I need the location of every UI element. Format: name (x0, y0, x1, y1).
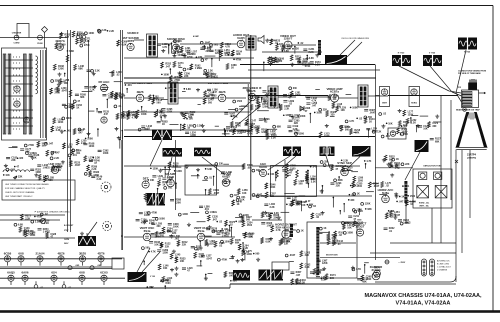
wire (169, 124, 178, 126)
capacitor C sync46 (296, 202, 300, 203)
resistor R vert18 (242, 221, 245, 227)
component vert39 (212, 230, 215, 233)
transformer T5 IF (358, 85, 368, 107)
junction (69, 158, 71, 160)
svg-text:10K: 10K (150, 179, 155, 182)
resistor R if20 (154, 111, 157, 117)
wire (164, 286, 166, 289)
svg-text:10K: 10K (189, 118, 194, 121)
yoke box (413, 169, 452, 208)
tube heater row2 6CU5 (100, 271, 108, 282)
junction (344, 222, 346, 224)
svg-text:22K: 22K (284, 243, 289, 246)
svg-text:21ATP4: 21ATP4 (467, 153, 477, 156)
svg-text:3BZ6: 3BZ6 (79, 251, 86, 255)
ground vert23 (170, 234, 174, 238)
svg-text:270K: 270K (174, 79, 180, 82)
wire (299, 195, 306, 197)
svg-text:2.2K: 2.2K (149, 222, 154, 225)
component hout16 (352, 268, 355, 271)
capacitor C if2b3 (102, 94, 106, 95)
component af1 (230, 194, 233, 197)
svg-text:1500: 1500 (237, 100, 243, 103)
resistor R lc31 (53, 64, 56, 70)
component sync8 (354, 210, 357, 213)
resistor R vb11 (224, 271, 227, 277)
svg-text:470K: 470K (187, 56, 193, 59)
svg-text:68K: 68K (25, 151, 30, 154)
tube V16 UHF OSC (48, 162, 62, 174)
wire (120, 30, 122, 140)
svg-text:12BY7: 12BY7 (284, 37, 293, 41)
resistor R snd3 (173, 61, 176, 67)
svg-text:22K: 22K (294, 122, 299, 125)
svg-text:270K: 270K (56, 167, 62, 170)
ground lm310 (30, 156, 34, 160)
resistor R hout15 (291, 279, 294, 285)
component vert52 (155, 217, 158, 220)
component vert57 (141, 247, 144, 250)
svg-text:1K: 1K (178, 65, 181, 68)
wire (171, 166, 181, 168)
svg-text:68K: 68K (80, 96, 85, 99)
heater term box (112, 258, 124, 269)
power frame right (455, 243, 457, 282)
resistor R vert19 (194, 252, 197, 258)
wire (122, 30, 124, 250)
CRT socket (462, 90, 479, 108)
resistor R sync53 (265, 192, 268, 198)
resistor R sync26 (285, 164, 288, 170)
junction (271, 212, 273, 214)
component if214 (233, 100, 236, 103)
svg-text:22K: 22K (206, 50, 211, 53)
component lm18 (6, 168, 9, 171)
ground sync11 (320, 189, 324, 193)
svg-text:100K: 100K (173, 225, 179, 228)
svg-text:120K: 120K (176, 170, 182, 173)
junction (314, 112, 316, 114)
svg-text:PIN SIDE OF TUBE BASE: PIN SIDE OF TUBE BASE (458, 72, 481, 75)
ground if240 (202, 129, 206, 133)
junction (157, 109, 159, 111)
capacitor C snd0 (157, 44, 161, 45)
waveform display WF2 vert video (458, 38, 477, 50)
wf16 leader (348, 157, 360, 169)
resistor R vert56 (214, 241, 217, 247)
svg-text:1500: 1500 (225, 240, 231, 243)
resistor R if215 (233, 129, 236, 135)
wire (164, 167, 166, 177)
svg-text:22K: 22K (336, 185, 341, 188)
svg-text:22K: 22K (295, 48, 300, 51)
tube heater row1 4DT6 (97, 251, 104, 262)
resistor R va25 (319, 132, 322, 138)
capacitor C vert46 (168, 224, 172, 225)
svg-text:4.7K: 4.7K (366, 160, 371, 163)
svg-text:.001: .001 (214, 44, 219, 47)
capacitor C lc37 (84, 87, 88, 88)
wire (343, 204, 345, 212)
svg-text:100K: 100K (103, 152, 109, 155)
wire (375, 168, 432, 243)
tube V25 HV RECT (354, 222, 367, 236)
wire (157, 110, 159, 115)
junction (147, 287, 149, 289)
resistor R vert213 (238, 244, 241, 250)
svg-text:10K: 10K (64, 82, 69, 85)
svg-text:120K: 120K (254, 96, 260, 99)
svg-text:560: 560 (208, 101, 213, 104)
resistor R lc17 (59, 79, 62, 85)
junction (251, 127, 253, 129)
wire (124, 140, 244, 210)
component sync13 (334, 179, 337, 182)
component sync25 (320, 161, 323, 164)
capacitor C vert210 (201, 256, 205, 257)
tuner switch wafer 1 (3, 54, 6, 134)
svg-text:4.7K: 4.7K (354, 132, 359, 135)
resistor R snd31 (232, 50, 235, 56)
wire (88, 110, 94, 112)
svg-text:— 250V: — 250V (398, 262, 406, 264)
svg-text:68K: 68K (78, 67, 83, 70)
component top1 (97, 29, 100, 32)
ground af5 (158, 169, 162, 173)
junction (359, 208, 361, 210)
wire (256, 96, 388, 98)
wire (364, 262, 369, 264)
uhf note box (2, 180, 75, 200)
resistor R if251 (136, 110, 139, 116)
svg-text:.0047: .0047 (213, 192, 220, 195)
wire (262, 45, 322, 52)
svg-text:6.8K: 6.8K (69, 50, 74, 53)
wire (175, 183, 177, 189)
capacitor C sync55 (264, 204, 268, 205)
wire (0, 258, 122, 260)
component vert6 (206, 211, 209, 214)
resistor R snd5 (190, 64, 193, 70)
junction (143, 260, 145, 262)
junction (275, 172, 277, 174)
svg-text:22K: 22K (11, 159, 16, 162)
ground crtdrv15 (416, 124, 420, 128)
resistor R lm34 (37, 141, 40, 147)
tube heater row1 4BZ6 (57, 251, 64, 262)
resistor R vo13 (290, 55, 293, 61)
svg-text:4BZ6: 4BZ6 (136, 90, 143, 94)
resistor R vo5 (268, 57, 271, 63)
svg-text:SOUND IF: SOUND IF (127, 32, 139, 35)
svg-text:1K: 1K (162, 183, 165, 186)
junction (106, 99, 108, 101)
resistor R hout10 (300, 263, 303, 269)
svg-text:1K: 1K (301, 230, 304, 233)
CRT base prongs (470, 79, 476, 83)
svg-text:B- BOOST: B- BOOST (64, 225, 74, 227)
resistor R va3 (250, 125, 253, 131)
resistor R hv213 (279, 239, 282, 245)
svg-text:4.5MC: 4.5MC (193, 35, 200, 38)
capacitor C snd26 (203, 73, 207, 74)
det leader lines (232, 100, 258, 126)
wire (134, 40, 237, 44)
wire (211, 59, 213, 67)
resistor R lc41 (72, 103, 75, 109)
svg-text:2.2K: 2.2K (90, 88, 95, 91)
ground vert51 (160, 243, 164, 247)
capacitor C vert14 (136, 219, 140, 220)
svg-text:3.3K: 3.3K (321, 278, 326, 281)
resistor R crtdrv13 (428, 122, 431, 128)
svg-text:120K: 120K (408, 113, 414, 116)
svg-text:10K: 10K (187, 68, 192, 71)
svg-text:100K: 100K (316, 111, 322, 114)
svg-text:6.8K: 6.8K (18, 223, 23, 226)
wire (235, 216, 243, 218)
svg-text:6CAT MODULE: 6CAT MODULE (345, 222, 359, 225)
capacitor C hvmod12 (348, 216, 352, 217)
capacitor C va33 (306, 103, 310, 104)
ground afc15 (382, 158, 386, 162)
svg-text:3.3K: 3.3K (338, 179, 343, 182)
svg-text:100K: 100K (352, 106, 358, 109)
svg-text:100K: 100K (89, 145, 95, 148)
ground hv29 (269, 237, 273, 241)
junction (400, 133, 402, 135)
tube V11 3RD VIDEO IF (243, 86, 262, 101)
resistor R sync15 (368, 182, 371, 188)
svg-text:100K: 100K (163, 73, 169, 76)
resistor R lm27 (21, 214, 24, 220)
capacitor C vert21 (167, 230, 171, 231)
CRT pin label 5 (462, 104, 472, 107)
resistor R vert24 (205, 239, 208, 245)
svg-text:330: 330 (331, 114, 336, 117)
wire (0, 220, 75, 238)
tube V30 4BQ7A (55, 39, 66, 50)
junction (147, 286, 149, 288)
resistor R crtdrv16 (403, 110, 406, 116)
component snd28 (173, 40, 176, 43)
tube V14 centering (411, 89, 417, 95)
wire (410, 118, 412, 124)
svg-text:6.8K: 6.8K (207, 168, 212, 171)
capacitor C if254 (157, 121, 161, 122)
waveform display WF11 horiz saw (233, 270, 250, 281)
tube V12 VIDEO AMP (326, 87, 342, 102)
wire (197, 221, 206, 223)
wire (370, 252, 456, 254)
wire (152, 217, 158, 219)
capacitor C vert7 (220, 231, 224, 232)
svg-text:4.7K: 4.7K (356, 268, 361, 271)
resistor R af37 (144, 193, 147, 199)
wire (171, 43, 173, 53)
capacitor C hout17 (310, 272, 314, 273)
tuner switch wafer 4 (29, 54, 32, 134)
svg-text:330: 330 (198, 247, 203, 250)
resistor R lm25 (71, 149, 74, 155)
wire (244, 253, 246, 260)
component sync40 (309, 205, 312, 208)
component lc19 (91, 69, 94, 72)
wire (218, 51, 220, 61)
resistor R snd11 (180, 46, 183, 52)
resistor Rn3 (306, 170, 309, 178)
svg-text:VERT - 30b: VERT - 30b (419, 206, 429, 208)
junction (170, 68, 172, 70)
wire (252, 219, 282, 221)
wire (213, 176, 215, 185)
wire (358, 209, 360, 215)
horiz centering box (409, 87, 420, 107)
resistor R af26 (168, 162, 171, 168)
transformer winding T8 horiz osc coil (404, 181, 407, 203)
ground lc3 (117, 136, 121, 140)
connector pill 1 (422, 259, 427, 276)
capacitor C af36 (221, 172, 225, 173)
component lc38 (65, 105, 68, 108)
wire (119, 140, 121, 149)
wf14 leader (268, 156, 296, 170)
svg-text:330: 330 (330, 277, 335, 280)
svg-text:2.2K: 2.2K (109, 30, 114, 33)
svg-text:330: 330 (270, 195, 275, 198)
junction (286, 204, 288, 206)
ground va32 (291, 115, 295, 119)
ground if220 (163, 114, 167, 118)
capacitor C vb7 (160, 280, 164, 281)
resistor R hvmod4 (343, 223, 346, 229)
fuse F1 (38, 35, 43, 40)
component if27 (138, 128, 141, 131)
wire (143, 261, 145, 265)
capacitor C if2b2 (98, 111, 102, 112)
wire (9, 147, 18, 149)
svg-text:330: 330 (432, 125, 437, 128)
resistor R lc30 (74, 64, 77, 70)
svg-text:1K: 1K (396, 158, 399, 161)
wire (411, 115, 418, 117)
junction (339, 210, 341, 212)
wire (0, 277, 125, 279)
capacitor C va39 (289, 130, 293, 131)
svg-text:68K: 68K (277, 125, 282, 128)
svg-text:10K: 10K (154, 243, 159, 246)
resistor R hvmod5 (327, 239, 330, 245)
capacitor C va9 (287, 126, 291, 127)
svg-text:4.7K: 4.7K (67, 146, 72, 149)
junction (310, 166, 312, 168)
component sync52 (323, 164, 326, 167)
svg-text:120K: 120K (365, 203, 371, 206)
svg-text:.047: .047 (165, 65, 170, 68)
svg-text:6AV6: 6AV6 (21, 271, 28, 275)
svg-text:.047: .047 (312, 105, 317, 108)
resistor R afc6 (406, 200, 409, 206)
wire (160, 117, 162, 121)
junction (310, 113, 312, 115)
tube V15b (390, 131, 396, 137)
wire (200, 261, 202, 266)
resistor R lc4 (50, 88, 53, 94)
junction (96, 108, 98, 110)
capacitor C snd37 (200, 48, 204, 49)
wire (351, 171, 358, 173)
svg-text:3.3K: 3.3K (95, 69, 100, 72)
capacitor C crtdrv17 (418, 126, 422, 127)
svg-text:6AU8: 6AU8 (259, 165, 267, 169)
wire (364, 265, 366, 274)
resistor R lc28 (117, 40, 120, 46)
spark gap (455, 160, 458, 163)
wire (330, 115, 335, 117)
resistor R va1 (250, 104, 253, 110)
resistor R hout5 (325, 274, 328, 280)
component vert29 (217, 258, 220, 261)
capacitor C snd12 (210, 50, 214, 51)
resistor R lm211 (46, 232, 49, 238)
svg-text:4BZ6: 4BZ6 (218, 90, 225, 94)
junction (410, 117, 412, 119)
wire (161, 168, 170, 170)
capacitor C if229 (224, 113, 228, 114)
junction (387, 133, 389, 135)
svg-text:68K: 68K (226, 174, 231, 177)
ground vb8 (175, 267, 179, 271)
svg-text:1500: 1500 (165, 282, 171, 285)
ground vert24 (231, 255, 235, 259)
junction (233, 58, 235, 60)
capacitor C af25 (152, 176, 156, 177)
CRT pin label 1 (462, 92, 472, 95)
ground vert33 (242, 249, 246, 253)
resistor R lc13 (53, 118, 56, 124)
svg-text:.047: .047 (48, 142, 53, 145)
wire (124, 82, 250, 84)
capacitor C lm9 (83, 143, 87, 144)
junction (341, 159, 343, 161)
CRT grid arrow (479, 92, 486, 94)
junction (64, 130, 66, 132)
wire (197, 104, 200, 106)
tube V9 1ST VIDEO IF (136, 90, 144, 102)
tuner bus wire 1 (40, 50, 42, 138)
capacitor C if241 (242, 131, 246, 132)
resistor R lc18 (76, 38, 79, 44)
ground vo3 (269, 56, 273, 60)
waveform display WF4 horiz video 2 (423, 55, 442, 66)
resistor R if248 (246, 119, 249, 125)
line loop (17, 24, 29, 38)
ground snd34 (175, 45, 179, 49)
resistor R if257 (203, 98, 206, 104)
resistor R sync14 (265, 183, 268, 189)
capacitor C crtdrv11 (430, 138, 434, 139)
resistor R if231 (148, 95, 151, 101)
svg-text:6CB6: 6CB6 (4, 251, 12, 255)
coil L40 (3, 170, 29, 172)
wire (309, 114, 311, 123)
component hv216 (285, 254, 288, 257)
wire (58, 81, 66, 83)
junction (34, 216, 36, 218)
capacitor C afc12 (398, 220, 402, 221)
capacitor C vo20 (303, 49, 307, 50)
heater comp 1 (68, 266, 94, 270)
